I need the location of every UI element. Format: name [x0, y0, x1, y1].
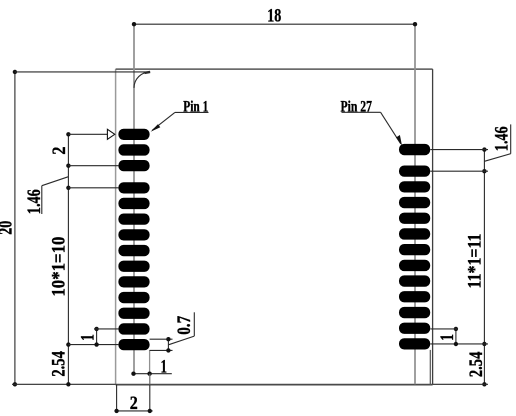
svg-text:2.54: 2.54	[466, 351, 487, 377]
svg-text:1: 1	[161, 356, 168, 377]
svg-text:1.46: 1.46	[491, 126, 512, 151]
svg-text:1: 1	[437, 334, 458, 341]
svg-text:10*1=10: 10*1=10	[49, 237, 70, 297]
svg-text:1: 1	[77, 334, 98, 341]
svg-text:2.54: 2.54	[48, 351, 69, 377]
svg-text:2: 2	[130, 393, 138, 414]
svg-text:0.7: 0.7	[174, 315, 195, 334]
svg-text:2: 2	[49, 147, 70, 155]
svg-text:11*1=11: 11*1=11	[465, 234, 486, 289]
svg-text:20: 20	[0, 221, 17, 235]
svg-text:18: 18	[267, 5, 281, 26]
svg-text:Pin 27: Pin 27	[340, 99, 372, 116]
